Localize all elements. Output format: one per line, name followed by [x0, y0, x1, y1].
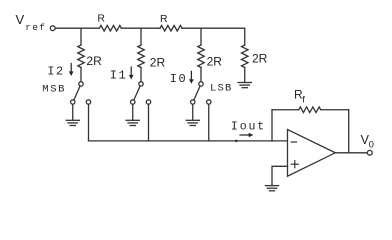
svg-text:ref: ref [25, 22, 46, 33]
switch S1 common contact [79, 82, 83, 86]
wire S3 right throw to bus [208, 104, 210, 141]
ground G2 [126, 120, 139, 125]
ground G1 [66, 120, 79, 125]
wire feedback top left [272, 109, 299, 111]
svg-text:R: R [160, 13, 168, 25]
wire S2 right throw to bus [148, 104, 150, 141]
wire Iout bus [89, 140, 288, 142]
switch S1 arm [74, 86, 80, 100]
label V0 [361, 133, 374, 151]
wire S1 right throw to bus [88, 104, 90, 141]
resistor 2R terminator [242, 45, 249, 67]
svg-text:I1: I1 [110, 68, 127, 82]
svg-text:Iout: Iout [231, 121, 266, 134]
switch S3 right throw [207, 100, 211, 104]
svg-text:V: V [16, 12, 25, 27]
wire node2 down [140, 28, 142, 45]
svg-text:I0: I0 [170, 72, 187, 86]
svg-text:2R: 2R [86, 54, 102, 68]
wire feedback left vertical [271, 110, 273, 141]
wire S2 left throw to ground [132, 104, 134, 120]
switch S3 common contact [199, 82, 203, 86]
op-amp U1 [288, 130, 336, 177]
resistor R1 [81, 25, 121, 31]
arrow I1 down [129, 67, 134, 80]
switch S3 arm [194, 86, 200, 100]
wire 2R node3 to switch [200, 68, 202, 82]
wire S3 left throw to ground [192, 104, 194, 120]
terminal V0 [367, 150, 372, 155]
wire node1 down [80, 28, 82, 45]
switch S2 arm [134, 86, 140, 100]
wire 2R node1 to switch [80, 68, 82, 82]
wire noninverting input [272, 166, 288, 185]
switch S2 common contact [139, 82, 143, 86]
svg-text:I2: I2 [47, 65, 64, 79]
wire S1 left throw to ground [72, 104, 74, 120]
resistor 2R node1 [78, 45, 85, 67]
ground G3 [186, 120, 199, 125]
switch S2 right throw [146, 100, 150, 104]
switch S3 left throw [191, 100, 195, 104]
svg-text:MSB: MSB [42, 83, 66, 95]
label Rf [294, 88, 305, 106]
switch S1 right throw [86, 100, 90, 104]
label Vref [16, 12, 47, 33]
svg-text:f: f [302, 95, 305, 106]
wire Vref to node1 [55, 27, 81, 29]
resistor R2 [160, 25, 182, 31]
wire node3 to terminator corner [182, 28, 245, 45]
op-amp plus sign [291, 161, 298, 168]
wire node3 down [200, 28, 202, 45]
svg-text:0: 0 [369, 140, 374, 151]
junction dot on bus [235, 140, 238, 143]
ground op-amp [265, 186, 278, 191]
ground terminator [238, 83, 251, 88]
resistor Rf [299, 107, 321, 113]
switch S2 left throw [131, 100, 135, 104]
wire terminator to ground [244, 68, 246, 83]
arrow I0 down [189, 71, 194, 84]
resistor 2R node2 [138, 45, 145, 67]
svg-text:LSB: LSB [210, 83, 233, 95]
resistor 2R node3 [198, 45, 205, 67]
op-amp minus sign [291, 141, 296, 143]
arrow Iout right [240, 133, 253, 138]
terminal Vref [50, 26, 55, 31]
svg-text:2R: 2R [252, 52, 268, 66]
wire feedback right vertical [348, 110, 350, 153]
svg-text:R: R [97, 13, 105, 25]
arrow I2 down [69, 64, 74, 77]
svg-text:2R: 2R [150, 56, 166, 70]
wire output [335, 152, 367, 154]
svg-text:2R: 2R [207, 55, 223, 69]
wire node1 to R2 [121, 27, 160, 29]
wire feedback top right [321, 109, 348, 111]
switch S1 left throw [71, 100, 75, 104]
wire 2R node2 to switch [140, 68, 142, 82]
